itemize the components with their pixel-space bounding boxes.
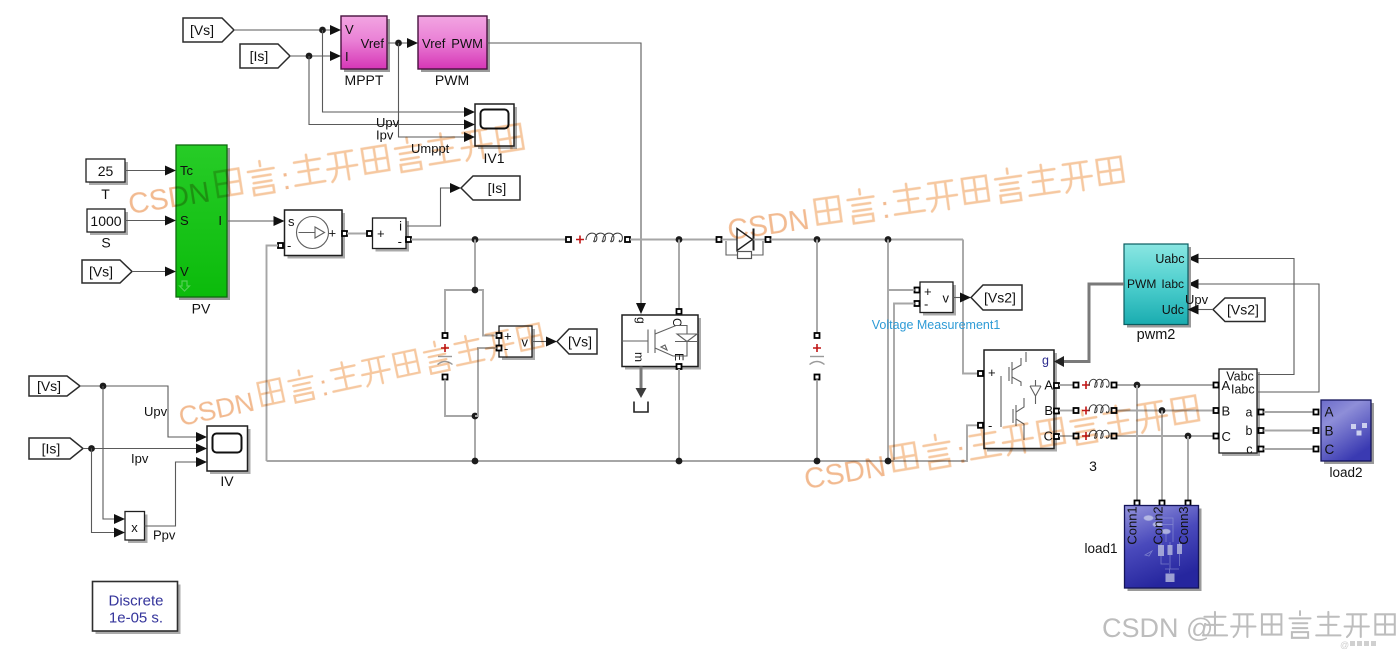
wire 25 to PV Tc xyxy=(125,170,167,172)
svg-text:load2: load2 xyxy=(1329,465,1362,480)
svg-text::: : xyxy=(879,190,892,226)
svg-text::: : xyxy=(317,370,331,403)
svg-text:Tc: Tc xyxy=(180,163,194,178)
svg-text:[Vs2]: [Vs2] xyxy=(1227,302,1259,318)
port bridge plus xyxy=(978,371,983,376)
node cap1 top junction xyxy=(472,287,479,294)
svg-text::: : xyxy=(279,161,293,197)
port VI B xyxy=(1214,408,1219,413)
port bridge minus xyxy=(978,423,983,428)
port current meas input xyxy=(367,231,372,236)
label load1 xyxy=(1084,541,1117,556)
arrowhead PV Tc input xyxy=(165,166,176,176)
node Is bottom junction xyxy=(88,445,95,452)
port IGBT C xyxy=(677,309,682,314)
wire cap2 bottom xyxy=(816,380,818,462)
arrowhead IV1 input2 xyxy=(464,120,475,130)
svg-text:PWM: PWM xyxy=(1127,277,1156,291)
wire vmeas1 out xyxy=(953,297,962,299)
svg-text:IV: IV xyxy=(220,473,234,489)
svg-text:v: v xyxy=(943,291,950,306)
svg-text:[Is]: [Is] xyxy=(42,441,61,457)
arrowhead MPPT V input xyxy=(330,25,341,35)
wire PV I to current source s xyxy=(227,220,275,222)
svg-text:PWM: PWM xyxy=(435,72,469,88)
arrowhead IV1 input3 xyxy=(464,132,475,142)
subsystem PWM xyxy=(418,16,490,88)
svg-text:@: @ xyxy=(1340,640,1349,650)
subsystem load1 xyxy=(1125,506,1202,592)
arrowhead MPPT I input xyxy=(330,51,341,61)
svg-text:T: T xyxy=(101,186,110,202)
arrowhead IV input3 xyxy=(196,457,207,467)
svg-text:B: B xyxy=(1222,404,1231,419)
svg-text:Discrete: Discrete xyxy=(108,593,163,610)
svg-text:B: B xyxy=(1044,403,1053,418)
node Vs-Upv junction xyxy=(319,27,326,34)
wire vmeas1 minus tap xyxy=(894,304,915,462)
diode D xyxy=(717,229,771,251)
node phase A junction xyxy=(1134,382,1141,389)
wire load1 conn1 drop xyxy=(1136,385,1138,501)
IGBT boost switch xyxy=(621,315,701,370)
node phase B junction xyxy=(1159,407,1166,414)
svg-text:x: x xyxy=(131,520,138,535)
port load1 conn2 xyxy=(1160,501,1165,506)
svg-text:A: A xyxy=(1044,378,1053,393)
port VI c out xyxy=(1259,447,1264,452)
svg-text:Vref: Vref xyxy=(422,36,446,51)
port VI C xyxy=(1214,434,1219,439)
port VI A xyxy=(1214,383,1219,388)
wire vmeas1 plus tap xyxy=(888,289,915,291)
port load2 C xyxy=(1314,447,1319,452)
port vmeas minus xyxy=(497,346,502,351)
svg-text:3: 3 xyxy=(1089,458,1097,474)
wire current source minus down-left xyxy=(267,246,279,462)
svg-text:Ipv: Ipv xyxy=(376,128,394,143)
label 3 xyxy=(1089,458,1097,474)
arrowhead goto Is xyxy=(450,183,461,193)
inductor L boost xyxy=(566,233,630,243)
universal bridge inverter xyxy=(984,350,1057,452)
wire 1000 to PV S xyxy=(125,220,167,222)
svg-text:[Vs2]: [Vs2] xyxy=(984,290,1016,306)
svg-text:[Is]: [Is] xyxy=(250,48,269,64)
node Vref-Umppt junction xyxy=(395,40,402,47)
arrowhead PWM Vref input xyxy=(407,38,418,48)
watermark band 2 xyxy=(725,153,1126,247)
arrowhead goto Vs xyxy=(546,337,557,347)
constant 25 xyxy=(86,159,128,202)
node rail-IGBT junction xyxy=(676,236,683,243)
svg-text:pwm2: pwm2 xyxy=(1137,327,1176,343)
svg-text:-: - xyxy=(398,234,402,249)
current measurement block xyxy=(373,218,410,252)
svg-text:I: I xyxy=(345,49,349,64)
wire PWM output to IGBT gate xyxy=(487,43,641,305)
port current source minus xyxy=(278,243,283,248)
svg-text:CSDN: CSDN xyxy=(176,387,257,432)
svg-text:-: - xyxy=(988,418,992,433)
node rail bottom cap1 xyxy=(472,458,479,465)
node rail-cap1 junction xyxy=(472,236,479,243)
svg-text:Vref: Vref xyxy=(361,36,385,51)
port load1 conn1 xyxy=(1135,501,1140,506)
svg-text:S: S xyxy=(180,213,189,228)
wire Vs to scope IV xyxy=(80,386,199,437)
svg-text:b: b xyxy=(1246,424,1253,438)
wire vmeas v out xyxy=(532,341,548,343)
from tag [Vs] top-left xyxy=(183,18,234,42)
svg-text:c: c xyxy=(1246,443,1252,457)
ground terminator xyxy=(634,402,648,413)
subsystem pwm2 xyxy=(1124,244,1191,343)
watermark band 1 xyxy=(125,120,525,221)
svg-text:Upv: Upv xyxy=(144,404,168,419)
wire MPPT Vref to PWM xyxy=(387,42,409,44)
wire i output to goto Is xyxy=(406,188,452,226)
node rail-vmeas1 junction xyxy=(885,236,892,243)
wire top rail meas to inductor xyxy=(411,239,566,241)
port VI b out xyxy=(1259,428,1264,433)
wire IGBT m to ground xyxy=(636,367,647,399)
svg-text:[Vs]: [Vs] xyxy=(37,378,61,394)
wire Vs to PV V xyxy=(132,271,167,273)
label Upv xyxy=(376,115,400,130)
svg-text:[Vs]: [Vs] xyxy=(89,264,113,280)
three-phase VI measurement xyxy=(1219,369,1260,457)
wire vmeas minus tap xyxy=(475,348,497,416)
svg-text:V: V xyxy=(180,264,189,279)
arrowhead current source s input xyxy=(274,216,285,226)
arrowhead IGBT g input xyxy=(636,303,646,314)
svg-text:+: + xyxy=(988,365,996,380)
arrowhead pwm2 Udc xyxy=(1188,305,1199,315)
svg-text:Vabc: Vabc xyxy=(1226,370,1254,384)
subsystem load2 xyxy=(1321,400,1374,464)
svg-text:S: S xyxy=(101,235,110,251)
wire Is to product xyxy=(92,449,117,533)
from tag [Is] top-left xyxy=(240,44,290,68)
label Umppt xyxy=(411,141,450,156)
svg-text:a: a xyxy=(1246,406,1253,420)
label Ppv xyxy=(153,528,176,543)
wire a to load2 A xyxy=(1264,411,1314,413)
svg-text:Iabc: Iabc xyxy=(1231,383,1255,397)
node phase C junction xyxy=(1185,433,1192,440)
node rail bottom cap2 xyxy=(814,458,821,465)
port load2 A xyxy=(1314,410,1319,415)
wire Iabc feedback xyxy=(1196,284,1319,392)
svg-text:load1: load1 xyxy=(1084,541,1117,556)
label Ipv xyxy=(376,128,394,143)
arrowhead product input1 xyxy=(114,514,125,524)
svg-text:PV: PV xyxy=(192,301,211,317)
inductor phase A xyxy=(1074,379,1117,389)
svg-text:A: A xyxy=(1325,405,1334,420)
svg-text:CSDN @: CSDN @ xyxy=(1102,613,1213,643)
wire Vs to product xyxy=(103,386,117,519)
subsystem MPPT xyxy=(341,16,390,88)
goto tag [Vs2] xyxy=(971,285,1022,310)
port vmeas1 plus xyxy=(915,288,920,293)
svg-text:[Vs]: [Vs] xyxy=(190,22,214,38)
goto tag [Vs] xyxy=(557,329,597,354)
node rail-cap2 junction xyxy=(814,236,821,243)
wire Umppt to scope IV1 xyxy=(399,43,467,137)
from tag [Vs] bottom-left xyxy=(29,376,80,396)
watermark band 3 xyxy=(801,392,1201,496)
svg-text:Ipv: Ipv xyxy=(131,451,149,466)
goto tag [Is] xyxy=(461,176,520,200)
node rail bottom IGBT xyxy=(676,458,683,465)
svg-text:Uabc: Uabc xyxy=(1155,252,1184,266)
svg-text:I: I xyxy=(218,213,222,228)
wire Vabc feedback xyxy=(1197,259,1294,375)
capacitor C1 xyxy=(438,333,453,380)
wire bottom rail xyxy=(267,425,979,461)
wire cap2 drop xyxy=(816,240,818,334)
port load2 B xyxy=(1314,428,1319,433)
port current source plus xyxy=(342,231,347,236)
label Upv xyxy=(1185,292,1209,307)
svg-text:+: + xyxy=(329,226,337,241)
wire Is to scope IV xyxy=(83,448,199,450)
arrowhead IV input2 xyxy=(196,444,207,454)
arrowhead IV input1 xyxy=(196,432,207,442)
inductor phase B xyxy=(1074,405,1117,415)
svg-text:A: A xyxy=(1222,378,1231,393)
arrowhead PV V input xyxy=(165,267,176,277)
label Ipv bottom xyxy=(131,451,149,466)
arrowhead product input2 xyxy=(114,528,125,538)
wire current source plus to current meas xyxy=(347,233,367,235)
discrete solver block xyxy=(93,582,181,635)
svg-text:V: V xyxy=(345,22,354,37)
wire phase A xyxy=(1059,384,1214,386)
wire Is to MPPT I xyxy=(290,55,332,57)
subsystem PV xyxy=(176,145,230,317)
capacitor C2 xyxy=(810,333,825,380)
node cap1 bottom junction xyxy=(472,413,479,420)
svg-text:g: g xyxy=(634,317,648,324)
wire Ipv to scope IV1 xyxy=(309,56,466,125)
wire IGBT E down xyxy=(678,369,680,461)
svg-text:C: C xyxy=(1222,429,1231,444)
port bridge out A xyxy=(1054,383,1059,388)
wire diode to bridge rail xyxy=(771,239,964,241)
port vmeas1 minus xyxy=(915,301,920,306)
scope IV xyxy=(207,426,251,489)
node rail bottom vmeas1 xyxy=(885,458,892,465)
port bridge out C xyxy=(1054,434,1059,439)
wire Vs to MPPT V xyxy=(234,29,332,31)
svg-text:MPPT: MPPT xyxy=(345,72,384,88)
svg-text:m: m xyxy=(632,352,646,362)
svg-text:-: - xyxy=(287,238,291,253)
svg-text:CSDN: CSDN xyxy=(726,204,812,247)
port bridge out B xyxy=(1054,409,1059,414)
svg-text:Conn2: Conn2 xyxy=(1151,506,1166,544)
port IGBT E xyxy=(677,364,682,369)
wire c to load2 C xyxy=(1264,448,1314,450)
watermark tiny xyxy=(1340,640,1376,650)
label Upv bottom xyxy=(144,404,168,419)
port current meas minus out xyxy=(406,237,411,242)
wire Upv to scope IV1 xyxy=(323,30,467,112)
port load1 conn3 xyxy=(1186,501,1191,506)
svg-text:CSDN: CSDN xyxy=(802,451,888,496)
svg-text:s: s xyxy=(288,214,295,229)
wire cap1 branch bottom xyxy=(445,380,475,462)
voltage measurement 1 xyxy=(920,282,956,316)
node Is-Ipv junction xyxy=(306,53,313,60)
label Voltage Measurement1 xyxy=(872,318,1001,332)
product block x xyxy=(125,512,148,544)
wire phase B xyxy=(1059,410,1214,412)
svg-text:C: C xyxy=(1325,442,1335,457)
svg-text:-: - xyxy=(924,297,928,312)
wire Ppv to scope IV xyxy=(145,462,199,526)
port VI a out xyxy=(1259,410,1264,415)
svg-text:Ppv: Ppv xyxy=(153,528,176,543)
wire load1 conn2 drop xyxy=(1161,411,1163,501)
controlled current source xyxy=(285,210,346,259)
arrowhead IV1 input1 xyxy=(464,107,475,117)
voltage measurement PV xyxy=(499,326,535,360)
svg-text:[Vs]: [Vs] xyxy=(568,334,592,350)
wire dc plus down to bridge xyxy=(963,240,978,374)
from tag [Vs] PV xyxy=(82,260,132,283)
svg-text:1e-05 s.: 1e-05 s. xyxy=(109,610,163,627)
arrowhead pwm2 Uabc xyxy=(1188,254,1199,264)
svg-text:B: B xyxy=(1325,424,1334,439)
svg-text:g: g xyxy=(1042,354,1049,368)
from tag [Vs2] pwm2 xyxy=(1213,298,1265,322)
svg-text:25: 25 xyxy=(98,163,114,179)
svg-text:+: + xyxy=(377,226,385,241)
svg-text:Conn1: Conn1 xyxy=(1125,506,1140,544)
watermark band 4 xyxy=(175,320,546,433)
svg-text:i: i xyxy=(399,219,402,234)
resistor diode snubber xyxy=(726,241,763,259)
wire b to load2 B xyxy=(1264,430,1314,432)
wire IGBT collector drop xyxy=(678,240,680,310)
svg-text:Udc: Udc xyxy=(1162,303,1184,317)
svg-text:1000: 1000 xyxy=(90,213,121,229)
arrowhead goto Vs2 xyxy=(960,293,971,303)
svg-text:[Is]: [Is] xyxy=(488,180,507,196)
wire pwm2 PWM to bridge g xyxy=(1054,284,1124,367)
wire Vs2 to Udc xyxy=(1197,309,1213,311)
wire inductor to diode xyxy=(630,239,717,241)
arrowhead pwm2 Iabc xyxy=(1188,279,1199,289)
wire cap1 branch top xyxy=(445,240,475,334)
wire phase C xyxy=(1059,435,1214,437)
port vmeas plus xyxy=(497,333,502,338)
from tag [Is] bottom-left xyxy=(29,438,83,459)
wire vmeas1 tap line xyxy=(887,240,889,462)
wire load1 conn3 drop xyxy=(1187,436,1189,501)
svg-text:Iabc: Iabc xyxy=(1161,277,1184,291)
scope IV1 xyxy=(475,104,517,166)
inductor phase C xyxy=(1074,430,1117,440)
node Vs bottom junction xyxy=(100,383,107,390)
watermark CSDN gray xyxy=(1102,611,1395,643)
wire vmeas plus tap xyxy=(478,290,497,336)
svg-text:Conn3: Conn3 xyxy=(1176,506,1191,544)
svg-text:E: E xyxy=(672,353,686,361)
label load2 xyxy=(1329,465,1362,480)
svg-text:PWM: PWM xyxy=(451,36,483,51)
arrowhead PV S input xyxy=(165,216,176,226)
svg-text:Voltage Measurement1: Voltage Measurement1 xyxy=(872,318,1001,332)
svg-text:Upv: Upv xyxy=(1185,292,1209,307)
constant 1000 xyxy=(87,209,128,251)
